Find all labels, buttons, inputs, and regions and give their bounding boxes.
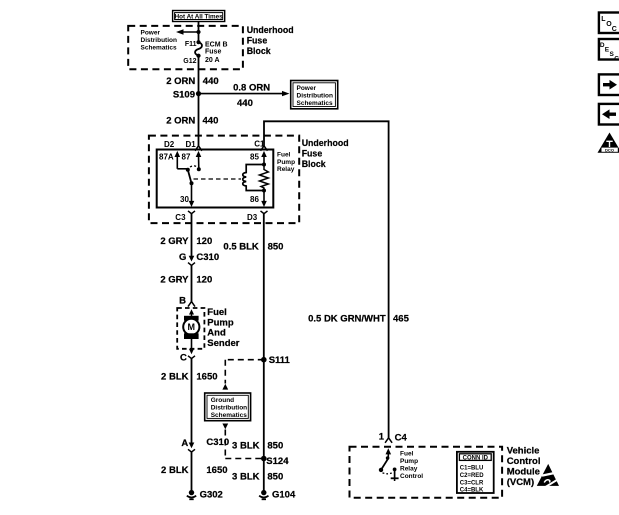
svg-text:Block: Block bbox=[302, 159, 326, 169]
svg-text:F11: F11 bbox=[185, 41, 197, 48]
svg-text:2 BLK: 2 BLK bbox=[161, 465, 189, 476]
toolbar key DESC bbox=[599, 39, 619, 63]
mechanical link dashed (switch to coil) bbox=[194, 178, 242, 180]
fuel pump and sender dashed outline bbox=[177, 308, 204, 349]
label Fuel Pump Relay bbox=[277, 152, 295, 173]
svg-text:(VCM): (VCM) bbox=[507, 477, 534, 488]
svg-text:Ground: Ground bbox=[211, 397, 234, 404]
svg-text:Power: Power bbox=[141, 29, 161, 36]
toolbar key LOC bbox=[599, 13, 619, 34]
svg-text:CONN ID: CONN ID bbox=[463, 455, 489, 461]
svg-text:G12: G12 bbox=[183, 58, 196, 65]
value label ECM B Fuse 20 A bbox=[205, 41, 228, 64]
pin 86 with arrow bbox=[250, 191, 267, 208]
box Power Distribution Schematics (right) bbox=[291, 81, 338, 109]
switch travel dashed arc to 87 bbox=[190, 166, 198, 167]
svg-text:1650: 1650 bbox=[206, 465, 227, 476]
wire: relay D3 down to ground G104 bbox=[263, 214, 265, 493]
svg-text:C2=RED: C2=RED bbox=[460, 473, 485, 479]
toolbar ESD warning triangle bbox=[598, 133, 619, 153]
svg-text:DCO: DCO bbox=[605, 147, 614, 152]
svg-text:0.5 BLK: 0.5 BLK bbox=[223, 242, 259, 253]
wire: pump C down to connector C310 pin A bbox=[191, 359, 193, 447]
pin B fork bbox=[179, 295, 195, 306]
pin F11 label bbox=[185, 41, 197, 48]
svg-text:2 ORN: 2 ORN bbox=[166, 115, 195, 126]
svg-text:C: C bbox=[612, 26, 617, 33]
svg-text:M: M bbox=[188, 322, 196, 332]
node S124 bbox=[261, 456, 289, 467]
underhood fuse block (top) dashed outline bbox=[128, 26, 243, 69]
pin D2 label bbox=[164, 140, 175, 149]
svg-text:Pump: Pump bbox=[277, 159, 295, 166]
svg-text:B: B bbox=[179, 295, 186, 306]
wire: C310 A down to ground G302 bbox=[191, 452, 193, 492]
svg-text:2 GRY: 2 GRY bbox=[160, 275, 189, 286]
svg-text:20 A: 20 A bbox=[205, 57, 220, 64]
svg-text:G: G bbox=[179, 252, 186, 263]
vehicle control module dashed outline bbox=[350, 447, 503, 498]
wire label 3 BLK 850 (S111 to S124) bbox=[232, 440, 283, 451]
svg-text:120: 120 bbox=[196, 236, 212, 247]
label Fuel Pump Relay Control bbox=[400, 450, 423, 480]
svg-text:Distribution: Distribution bbox=[211, 404, 247, 411]
svg-text:S109: S109 bbox=[173, 89, 195, 100]
svg-text:Fuel: Fuel bbox=[277, 152, 291, 159]
svg-text:850: 850 bbox=[268, 242, 284, 253]
svg-text:Underhood: Underhood bbox=[247, 25, 294, 35]
relay coil resistor bbox=[260, 165, 269, 193]
svg-text:3 BLK: 3 BLK bbox=[232, 471, 260, 482]
toolbar key next (right arrow) bbox=[599, 74, 619, 95]
wire label 2 GRY 120 (C310 to pump) bbox=[160, 275, 212, 286]
pin C fork bbox=[180, 349, 195, 364]
pin 87 with arrow and contact bbox=[182, 151, 202, 171]
svg-text:Power: Power bbox=[297, 85, 317, 92]
power source label Hot At All Times bbox=[173, 11, 225, 22]
svg-text:ECM B: ECM B bbox=[205, 41, 228, 48]
VCM fuel pump relay control driver switch bbox=[379, 448, 399, 481]
connector pin 1 C4 at VCM bbox=[379, 432, 408, 444]
svg-text:30: 30 bbox=[180, 195, 189, 204]
svg-text:S111: S111 bbox=[269, 355, 291, 366]
svg-text:C: C bbox=[180, 352, 187, 363]
relay outline Fuel Pump Relay bbox=[157, 150, 274, 208]
connector C310 pin G bbox=[179, 252, 219, 266]
svg-text:Relay: Relay bbox=[277, 166, 295, 173]
svg-text:Module: Module bbox=[507, 466, 540, 477]
svg-text:Fuel: Fuel bbox=[400, 450, 414, 457]
wire: relay C1 up and over to VCM pin 1 C4 bbox=[264, 121, 389, 438]
wire: Hot At All Times down to fuse F11 bbox=[198, 22, 200, 43]
svg-text:3 BLK: 3 BLK bbox=[232, 440, 260, 451]
svg-text:C3=CLR: C3=CLR bbox=[460, 481, 484, 487]
label Fuel Pump And Sender bbox=[207, 307, 240, 349]
svg-text:Hot At All Times: Hot At All Times bbox=[175, 14, 224, 21]
svg-text:850: 850 bbox=[267, 440, 283, 451]
label Underhood Fuse Block (relay) bbox=[302, 138, 349, 169]
svg-text:87A: 87A bbox=[159, 152, 174, 161]
svg-text:440: 440 bbox=[203, 76, 219, 87]
wire label 0.5 DK GRN/WHT 465 bbox=[308, 313, 409, 324]
box Ground Distribution Schematics bbox=[205, 393, 251, 421]
svg-text:120: 120 bbox=[196, 275, 212, 286]
pin C1 label bbox=[254, 139, 265, 148]
fuel pump motor M bbox=[183, 309, 199, 349]
svg-text:Distribution: Distribution bbox=[141, 37, 177, 44]
wire label 2 GRY 120 (C3 to C310) bbox=[160, 236, 212, 247]
svg-text:C4=BLK: C4=BLK bbox=[460, 487, 484, 493]
wire label 3 BLK 850 (S124 to G104) bbox=[232, 471, 283, 482]
svg-text:Schematics: Schematics bbox=[297, 100, 334, 107]
svg-text:Sender: Sender bbox=[207, 338, 240, 349]
ESD sensitivity symbol bbox=[537, 464, 560, 487]
svg-text:0.8 ORN: 0.8 ORN bbox=[233, 83, 270, 94]
svg-text:A: A bbox=[181, 438, 188, 449]
svg-text:465: 465 bbox=[393, 313, 410, 324]
svg-text:C3: C3 bbox=[175, 213, 186, 222]
pin G12 label bbox=[183, 58, 196, 65]
svg-text:G104: G104 bbox=[272, 490, 296, 501]
svg-text:0.5 DK GRN/WHT: 0.5 DK GRN/WHT bbox=[308, 313, 386, 324]
underhood fuse block (relay) dashed outline bbox=[149, 136, 299, 224]
svg-text:Block: Block bbox=[247, 46, 271, 56]
svg-text:Relay: Relay bbox=[400, 465, 418, 472]
connector fork at C1 bbox=[261, 146, 268, 151]
svg-text:Schematics: Schematics bbox=[141, 45, 178, 52]
svg-text:G302: G302 bbox=[200, 490, 223, 501]
dashed wire: S111 to Ground Distribution Schematics bbox=[222, 360, 263, 390]
svg-text:S124: S124 bbox=[266, 456, 289, 467]
pin D3 label and fork bbox=[247, 211, 268, 222]
dashed wire: Ground Distribution Schematics to S124 bbox=[222, 424, 263, 459]
wire label 2 BLK 1650 (pump to C310) bbox=[161, 371, 217, 382]
wire label 2 ORN 440 (S109 to relay) bbox=[166, 115, 218, 126]
connector fork at D1 bbox=[195, 146, 202, 151]
ground G302 bbox=[187, 490, 223, 501]
toolbar key previous (left arrow) bbox=[599, 104, 619, 125]
wire: S109 down to relay pin D1 bbox=[198, 94, 200, 146]
ground G104 bbox=[259, 490, 296, 501]
svg-text:Fuse: Fuse bbox=[205, 49, 221, 56]
connector C310 pin A bbox=[181, 437, 229, 452]
wire: fuse G12 down to node S109 bbox=[198, 56, 200, 94]
svg-text:440: 440 bbox=[203, 115, 219, 126]
svg-text:Schematics: Schematics bbox=[211, 412, 248, 419]
svg-text:Control: Control bbox=[400, 473, 423, 480]
svg-text:C: C bbox=[614, 56, 619, 63]
svg-text:Control: Control bbox=[507, 456, 541, 467]
wire label 0.8 ORN 440 bbox=[233, 83, 270, 109]
wire: C310 down to fuel pump pin B bbox=[191, 265, 193, 301]
svg-text:Vehicle: Vehicle bbox=[507, 445, 540, 456]
svg-text:440: 440 bbox=[237, 98, 253, 109]
relay coil bbox=[243, 163, 266, 191]
pin 87A with arrow bbox=[159, 151, 187, 169]
wire label 2 ORN 440 (fuse to S109) bbox=[166, 76, 218, 87]
svg-text:Fuse: Fuse bbox=[302, 148, 323, 158]
svg-text:D1: D1 bbox=[186, 140, 197, 149]
CONN ID table bbox=[457, 452, 494, 494]
wire: S109 to Power Distribution Schematics box bbox=[199, 91, 290, 96]
wire label 2 BLK 1650 (C310 to G302) bbox=[161, 465, 227, 476]
svg-text:Fuse: Fuse bbox=[247, 35, 268, 45]
pin D1 label bbox=[186, 140, 197, 149]
svg-text:C1=BLU: C1=BLU bbox=[460, 465, 484, 471]
svg-text:85: 85 bbox=[250, 152, 259, 161]
label Vehicle Control Module (VCM) bbox=[507, 445, 541, 487]
relay switch blade (30 to 87A) bbox=[186, 168, 194, 186]
pin C3 label and fork bbox=[175, 211, 195, 222]
reference label Power Distribution Schematics (inside fuse block) bbox=[141, 29, 178, 51]
svg-text:2 ORN: 2 ORN bbox=[166, 76, 195, 87]
svg-text:86: 86 bbox=[250, 195, 259, 204]
svg-text:D2: D2 bbox=[164, 140, 175, 149]
pin 85 with arrow bbox=[250, 151, 267, 165]
svg-text:850: 850 bbox=[267, 471, 283, 482]
svg-text:C310: C310 bbox=[196, 252, 219, 263]
label Underhood Fuse Block (top) bbox=[247, 25, 294, 56]
wire label 0.5 BLK 850 (D3 to S111) bbox=[223, 242, 283, 253]
node S111 bbox=[261, 355, 291, 366]
node S109 bbox=[173, 89, 201, 100]
svg-text:87: 87 bbox=[182, 152, 191, 161]
wire: relay C3 down to connector C310 pin G bbox=[191, 214, 193, 260]
fuse F11/G12 ECM B 20A bbox=[195, 40, 202, 58]
svg-text:1650: 1650 bbox=[196, 371, 217, 382]
svg-text:C4: C4 bbox=[395, 433, 408, 444]
svg-text:Underhood: Underhood bbox=[302, 138, 349, 148]
svg-text:D3: D3 bbox=[247, 213, 258, 222]
svg-text:2 GRY: 2 GRY bbox=[160, 236, 189, 247]
arrow to Power Distribution Schematics reference bbox=[176, 29, 201, 34]
svg-text:1: 1 bbox=[379, 432, 385, 443]
svg-text:Pump: Pump bbox=[400, 458, 418, 465]
svg-text:Distribution: Distribution bbox=[297, 93, 333, 100]
pin 30 with arrow bbox=[180, 183, 194, 207]
svg-text:2 BLK: 2 BLK bbox=[161, 371, 189, 382]
